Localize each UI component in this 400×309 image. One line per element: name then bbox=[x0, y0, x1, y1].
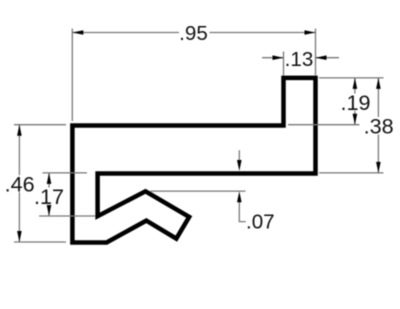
dimension line .17 lower segment bbox=[48, 206, 50, 217]
extension line mid-right bbox=[288, 124, 359, 126]
arrow .38 top bbox=[376, 78, 381, 89]
arrow .17 bottom bbox=[47, 205, 52, 216]
dimension line .38 upper segment bbox=[377, 78, 379, 117]
extension line left-bottom of .46 bbox=[14, 241, 66, 243]
dimension line .17 upper segment bbox=[48, 173, 50, 188]
extension line left of .95 bbox=[71, 29, 73, 122]
svg-text:.19: .19 bbox=[340, 90, 370, 115]
extension line .17 top bbox=[43, 172, 88, 174]
svg-text:.95: .95 bbox=[179, 22, 208, 45]
arrow .46 top bbox=[17, 125, 22, 136]
dimension line .38 lower segment bbox=[377, 135, 379, 173]
extension line left-top of .46 bbox=[14, 124, 66, 126]
leader .07 lower segment with jog bbox=[239, 196, 245, 222]
svg-text:.13: .13 bbox=[285, 48, 314, 71]
dimension line .46 lower segment bbox=[18, 192, 20, 242]
arrow .19 top bbox=[353, 78, 358, 89]
arrow .46 bottom bbox=[17, 231, 22, 242]
svg-text:.17: .17 bbox=[34, 184, 64, 209]
extension line tab-left of .13 bbox=[283, 52, 285, 76]
arrow .13 left points right bbox=[273, 55, 284, 60]
extension line peak bbox=[151, 190, 246, 192]
extension line .17 bottom bbox=[39, 215, 96, 217]
arrow .17 top bbox=[47, 173, 52, 184]
svg-text:.46: .46 bbox=[5, 171, 35, 196]
arrow .38 bottom bbox=[376, 162, 381, 173]
arrow .95 left bbox=[72, 30, 83, 35]
extension line top-right bbox=[319, 77, 384, 79]
dimension line .13 right tail bbox=[316, 57, 340, 59]
dimension line .95 right segment bbox=[210, 32, 316, 34]
profile outline bbox=[72, 78, 315, 243]
dimension line .13 left tail bbox=[262, 57, 284, 59]
arrow .95 right bbox=[305, 30, 316, 35]
arrow .19 bottom bbox=[353, 114, 358, 125]
arrow .07 down bbox=[237, 160, 242, 171]
dimension line .19 upper segment bbox=[354, 78, 356, 94]
svg-text:.38: .38 bbox=[364, 114, 394, 139]
dimension line .19 lower segment bbox=[354, 111, 356, 125]
dimension line .46 upper segment bbox=[18, 125, 20, 176]
leader .07 upper segment bbox=[238, 150, 240, 165]
extension line right of .95 and .13 bbox=[315, 29, 317, 76]
svg-text:.07: .07 bbox=[246, 210, 275, 233]
arrow .13 right points left bbox=[316, 55, 327, 60]
arrow .07 up bbox=[237, 191, 242, 202]
extension line bottom-right bbox=[319, 172, 384, 174]
dimension line .95 left segment bbox=[72, 32, 179, 34]
